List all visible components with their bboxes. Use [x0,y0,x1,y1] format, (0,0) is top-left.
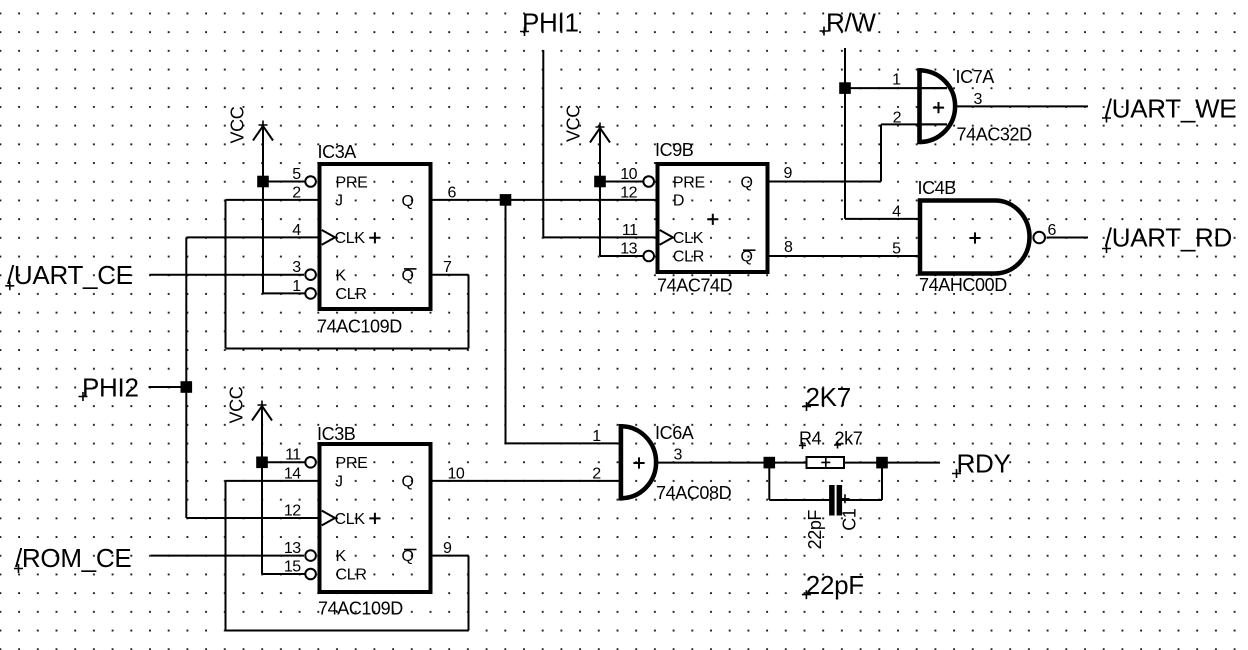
IC6A pin number 2 [592,465,601,482]
svg-text:74AC109D: 74AC109D [318,599,403,619]
svg-text:D: D [673,193,684,210]
wire VCC to IC3A pin5 PRE [263,125,305,293]
svg-text:2: 2 [893,110,902,127]
IC3B pin 11 PRE bubble [305,457,316,468]
svg-text:74AC109D: 74AC109D [317,317,402,337]
wire /ROM_CE to IC3B pin13 K [151,555,304,557]
wire to IC6A pin1 [506,442,619,444]
R4 name label [799,429,822,449]
svg-text:4: 4 [292,222,301,239]
wire IC7A pin3 to /UART_WE [954,105,1088,107]
IC3A pin number 5 [292,166,301,183]
node PHI2 junction [181,381,193,393]
IC9B D text [673,193,684,210]
svg-text:10: 10 [620,166,637,183]
wire IC3A Q pin6 to IC9B D pin12 [431,199,656,201]
supply VCC text at IC3A [228,106,248,143]
net label /UART_WE [1102,93,1236,123]
wire IC3B J pin14 [226,480,319,482]
wire PHI2 stub [149,386,187,388]
C1 name label [840,508,860,531]
IC3B PRE text [336,455,368,472]
IC9B plus symbol [707,214,718,225]
svg-text:Q: Q [741,249,753,266]
R4 value origin cross [834,442,841,449]
svg-text:VCC: VCC [228,106,248,143]
IC4B label [918,178,957,198]
svg-text:22pF: 22pF [805,510,825,550]
IC9B pin number 13 [620,240,637,257]
net label R/W [820,8,877,38]
IC4B pin number 4 [892,203,901,220]
nand-gate IC4B 74AHC00D body [920,201,1030,274]
capacitor C1 left plate [829,485,835,516]
IC3A pin number 4 [292,222,301,239]
svg-text:4: 4 [892,203,901,220]
svg-text:22pF: 22pF [806,570,864,600]
IC3B Qbar text [402,548,417,565]
wire PHI2 to IC3B pin12 CLK [186,517,318,519]
IC9B pin 13 CLR bubble [643,251,654,262]
svg-text:11: 11 [622,222,638,239]
IC7A pin number 1 [892,72,901,89]
svg-text:Q: Q [741,175,753,192]
IC9B CLR text [673,249,704,266]
IC3A pin number 7 [443,259,452,276]
svg-text:/UART_CE: /UART_CE [7,260,133,290]
svg-text:6: 6 [1048,222,1057,239]
svg-text:12: 12 [620,184,637,201]
svg-text:3: 3 [674,447,683,464]
net label 22pF [802,570,864,600]
svg-text:J: J [335,193,343,210]
svg-text:9: 9 [443,540,452,557]
IC3A Q text [402,193,414,210]
IC7A value 74AC32D [957,125,1033,145]
IC3B pin number 11 [285,447,301,464]
svg-text:Q: Q [402,267,414,284]
IC3A pin number 1 [292,278,301,295]
wire PHI2 vertical [185,237,187,518]
IC3B pin 15 CLR bubble [305,569,316,580]
IC3A CLK text [335,230,366,247]
supply VCC arrow at IC3A [253,121,273,141]
IC9B value 74AC74D [657,275,733,295]
IC3A Qbar text [402,267,417,284]
svg-text:PRE: PRE [673,174,705,191]
wire R/W to IC7A pin1 [845,87,947,89]
svg-text:/UART_WE: /UART_WE [1105,93,1236,123]
IC3A plus symbol [369,232,380,243]
svg-text:1: 1 [592,428,601,445]
IC9B pin number 9 [784,165,793,182]
IC9B PRE text [673,174,705,191]
svg-text:3: 3 [292,259,301,276]
R4 origin cross [821,458,830,467]
IC3A pin number 2 [292,184,301,201]
svg-text:PHI2: PHI2 [82,373,139,403]
svg-text:7: 7 [443,259,452,276]
IC3A pin 1 CLR bubble [305,288,316,299]
wire VCC to IC3A pin1 CLR [263,292,305,294]
svg-text:RDY: RDY [957,449,1011,479]
svg-text:2: 2 [592,465,601,482]
wire IC6A pin3 to RDY [654,462,940,464]
wire IC3A J pin2 [226,199,319,201]
svg-text:CLR: CLR [336,567,367,584]
wire IC3B Qbar pin9 [431,555,469,557]
net label PHI2 [79,373,139,403]
svg-text:IC3A: IC3A [318,142,357,162]
IC3B pin number 10 [448,465,465,482]
wire IC3B feedback right vertical [468,556,470,631]
svg-text:5: 5 [892,240,901,257]
wire R/W vertical [844,48,846,219]
svg-text:Q: Q [402,474,414,491]
svg-text:74AC32D: 74AC32D [957,125,1033,145]
node VCC-IC3B junction [256,457,268,469]
svg-text:CLK: CLK [335,511,366,528]
svg-text:PRE: PRE [336,455,368,472]
IC3B value 74AC109D [318,599,403,619]
IC9B Q text [741,175,753,192]
svg-text:IC9B: IC9B [655,140,694,160]
IC3B CLR text [336,567,367,584]
svg-text:IC6A: IC6A [655,423,694,443]
wire C1 branch left [769,463,829,500]
node VCC-IC9B junction [594,176,606,188]
IC9B pin number 11 [622,222,638,239]
wire IC3A J feedback vertical [225,200,227,349]
svg-text:Q: Q [402,193,414,210]
node RDY junction left [764,457,776,469]
IC3A J text [335,193,343,210]
IC7A input stub pin 1 [920,87,948,89]
IC3A PRE text [336,174,368,191]
IC3A CLK triangle pin 4 [322,230,335,245]
supply VCC text at IC3B [227,386,247,423]
wire IC3B Q pin10 to IC6A pin2 [431,480,619,482]
svg-text:2: 2 [292,184,301,201]
node RDY junction right [876,457,888,469]
svg-text:1: 1 [892,72,901,89]
wire IC3B J feedback vertical [225,481,227,631]
svg-text:Q: Q [402,548,414,565]
svg-text:/ROM_CE: /ROM_CE [15,543,131,573]
svg-text:VCC: VCC [564,105,584,142]
svg-text:9: 9 [784,165,793,182]
svg-text:5: 5 [292,166,301,183]
svg-text:CLK: CLK [335,230,366,247]
net label /UART_CE [5,260,132,290]
wire node to IC6A pin1 vertical [505,200,507,444]
IC9B Qbar text [741,249,756,266]
svg-text:1: 1 [292,278,301,295]
svg-text:C1: C1 [840,508,860,531]
flip-flop IC9B 74AC74D box [658,164,768,272]
R4 name origin cross [799,442,806,449]
svg-text:8: 8 [784,239,793,256]
wire IC4B pin6 to /UART_RD [1047,237,1089,239]
supply VCC arrow at IC3B [252,401,272,421]
svg-text:2K7: 2K7 [806,382,851,412]
IC9B label [655,140,694,160]
IC4B output bubble [1033,232,1045,244]
IC9B CLK triangle pin 11 [660,230,673,245]
IC9B pin number 12 [620,184,637,201]
IC6A value 74AC08D [656,483,732,503]
IC3B pin number 14 [284,465,301,482]
svg-text:PRE: PRE [336,174,368,191]
net label /ROM_CE [14,543,131,573]
and-gate IC6A 74AC08D body [619,424,657,501]
node Q6 junction [500,194,512,206]
wire VCC to IC9B pin10 PRE [600,127,643,256]
capacitor C1 right plate [837,485,843,516]
wire IC3A feedback right vertical [468,275,470,349]
svg-text:10: 10 [448,465,465,482]
IC3B CLK triangle pin 12 [322,511,335,526]
svg-text:K: K [336,548,347,565]
node R/W junction [839,82,851,94]
IC3B label [317,424,356,444]
svg-text:IC3B: IC3B [317,424,356,444]
net label PHI1 [520,8,579,38]
IC6A plus symbol [633,457,644,468]
IC3A pin number 3 [292,259,301,276]
svg-text:CLR: CLR [336,286,367,303]
IC4B pin number 6 [1048,222,1057,239]
IC7A pin number 2 [893,110,902,127]
IC6A label [655,423,694,443]
IC9B pin 10 PRE bubble [643,176,654,187]
svg-text:3: 3 [974,91,983,108]
svg-text:12: 12 [284,502,301,519]
svg-text:CLK: CLK [673,230,704,247]
wire IC3A feedback bottom [226,348,469,350]
supply VCC text at IC9B [564,105,584,142]
IC7A pin number 3 [974,91,983,108]
IC3A pin number 6 [448,184,457,201]
net label 2K7 [802,382,851,412]
IC9B pin number 10 [620,166,637,183]
flip-flop IC3B 74AC109D box [320,444,431,592]
svg-text:J: J [335,474,343,491]
IC3A pin 3 K bubble [305,269,316,280]
C1 value label 22pF [805,510,825,550]
IC7A input stub pin 2 [920,123,948,125]
IC3B pin number 12 [284,502,301,519]
wire R/W to IC4B pin4 [845,218,920,220]
wire IC3A Qbar pin7 [431,274,469,276]
IC3A value 74AC109D [317,317,402,337]
svg-text:PHI1: PHI1 [522,8,579,38]
IC3A CLR text [336,286,367,303]
svg-text:IC7A: IC7A [956,67,995,87]
wire C1 branch right [841,463,882,500]
node VCC-IC3A junction [257,176,269,188]
svg-text:/UART_RD: /UART_RD [1105,223,1232,253]
IC7A label [956,67,995,87]
svg-text:74AHC00D: 74AHC00D [919,275,1007,295]
svg-text:74AC08D: 74AC08D [656,483,732,503]
svg-text:11: 11 [285,447,301,464]
wire VCC to IC3B pin15 CLR [262,573,305,575]
IC3B CLK text [335,511,366,528]
IC6A pin number 3 [674,447,683,464]
svg-text:13: 13 [284,540,301,557]
svg-text:VCC: VCC [227,386,247,423]
svg-text:6: 6 [448,184,457,201]
IC7A plus symbol [933,102,944,113]
or-gate IC7A 74AC32D body [917,68,955,144]
supply VCC arrow at IC9B [590,123,610,143]
svg-text:R/W: R/W [826,8,876,38]
IC4B value 74AHC00D [919,275,1007,295]
svg-text:15: 15 [284,558,301,575]
IC3B Q text [402,474,414,491]
svg-text:74AC74D: 74AC74D [657,275,733,295]
IC9B pin number 8 [784,239,793,256]
R4 value label 2k7 [835,429,863,449]
net label /UART_RD [1102,223,1232,253]
IC3B plus symbol [369,513,380,524]
svg-text:13: 13 [620,240,637,257]
wire IC9B Q pin9 to IC7A pin2 [770,124,948,181]
svg-text:CLR: CLR [673,249,704,266]
wire VCC to IC9B pin13 CLR [600,255,643,257]
wire PHI1 to IC9B pin11 CLK [543,236,655,238]
net label RDY [952,449,1011,479]
IC3A K text [336,267,347,284]
IC3B J text [335,474,343,491]
wire VCC to IC3B pin11 PRE [262,405,305,574]
wire PHI2 to IC3A pin4 CLK [186,236,318,238]
svg-text:14: 14 [284,465,301,482]
IC3B K text [336,548,347,565]
wire /UART_CE to IC3A pin3 K [150,274,305,276]
svg-text:K: K [336,267,347,284]
flip-flop IC3A 74AC109D box [320,164,431,309]
IC3B pin 13 K bubble [305,550,316,561]
IC3A label [318,142,357,162]
svg-text:IC4B: IC4B [918,178,957,198]
wire IC3B feedback bottom [226,630,469,632]
IC3B pin number 15 [284,558,301,575]
IC4B pin number 5 [892,240,901,257]
C1 origin cross [841,494,850,503]
wire IC9B Qbar pin8 to IC4B pin5 [770,255,920,257]
IC6A pin number 1 [592,428,601,445]
IC9B CLK text [673,230,704,247]
IC3B pin number 9 [443,540,452,557]
resistor R4 body [807,457,845,468]
IC3B pin number 13 [284,540,301,557]
IC4B plus symbol [969,232,980,243]
IC3A pin 5 PRE bubble [305,176,316,187]
wire PHI1 vertical [542,50,544,237]
